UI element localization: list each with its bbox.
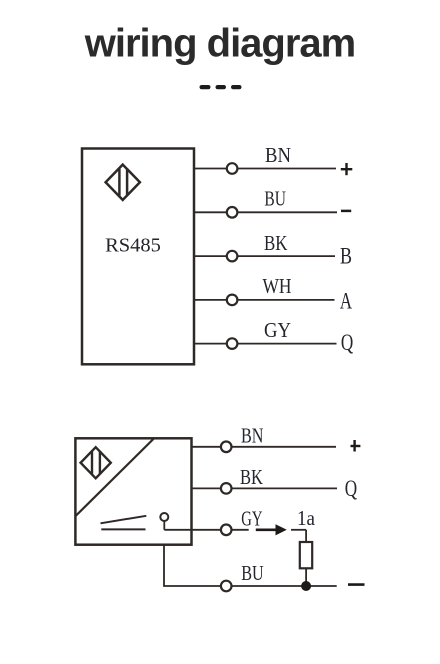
sensor symbol bars U1	[118, 169, 121, 196]
terminal circle GY (top)	[227, 338, 238, 349]
title dash 3	[231, 85, 242, 89]
svg-text:BK: BK	[264, 231, 288, 255]
terminal circle BN (top)	[227, 163, 238, 174]
svg-text:Q: Q	[345, 476, 358, 501]
switch contact stub S1	[163, 521, 165, 530]
divider diagonal U2	[76, 438, 155, 516]
current arrow head	[276, 524, 287, 535]
svg-text:1a: 1a	[297, 506, 316, 530]
sensor box U2 (bottom)	[75, 438, 191, 544]
junction dot	[301, 581, 311, 591]
terminal circle GY (bottom)	[221, 525, 232, 536]
wire WH (top)	[194, 299, 335, 301]
svg-text:GY: GY	[264, 318, 291, 342]
svg-text:RS485: RS485	[105, 235, 161, 257]
node + (top)	[345, 163, 347, 175]
switch contact circle S1	[160, 513, 168, 521]
load resistor R1	[300, 542, 312, 568]
svg-text:B: B	[340, 244, 352, 269]
wire BN (top)	[194, 168, 336, 170]
wire GY (top)	[194, 343, 337, 345]
svg-text:GY: GY	[241, 507, 262, 531]
terminal circle BU (top)	[227, 207, 238, 218]
svg-text:BN: BN	[241, 424, 264, 448]
wire BU (bottom, from box bottom)	[164, 545, 337, 586]
title dash 1	[200, 85, 211, 89]
current arrow shaft	[256, 528, 278, 531]
node + (bottom)	[353, 440, 355, 452]
svg-text:BK: BK	[240, 465, 263, 489]
title dash 2	[216, 85, 227, 89]
sensor box U1 (RS485)	[82, 149, 194, 365]
svg-text:BN: BN	[265, 143, 291, 167]
svg-text:wiring diagram: wiring diagram	[84, 22, 356, 66]
sensor symbol diamond U1	[106, 165, 140, 200]
wire BK (bottom)	[192, 487, 338, 489]
load lead to BU wire	[305, 568, 307, 586]
svg-text:WH: WH	[263, 274, 292, 298]
sensor symbol bars U2	[91, 452, 93, 474]
svg-text:BU: BU	[264, 187, 286, 211]
terminal circle BK (bottom)	[221, 483, 232, 494]
switch lever S1	[101, 516, 147, 524]
svg-text:Q: Q	[341, 330, 354, 355]
terminal circle BK (top)	[227, 251, 238, 262]
node - (top)	[341, 210, 351, 213]
wire BU (top)	[194, 211, 337, 213]
wire GY (bottom)	[164, 529, 248, 531]
wire BK (top)	[194, 255, 335, 257]
wire BN (bottom)	[192, 446, 337, 448]
svg-text:A: A	[340, 289, 353, 314]
svg-text:BU: BU	[241, 561, 264, 585]
node - (bottom)	[348, 583, 365, 586]
switch base line S1	[101, 528, 145, 530]
load lead down	[305, 530, 307, 542]
terminal circle BN (bottom)	[221, 442, 232, 453]
terminal circle WH (top)	[227, 295, 238, 306]
sensor symbol diamond U2	[81, 447, 111, 478]
terminal circle BU (bottom)	[221, 581, 232, 592]
